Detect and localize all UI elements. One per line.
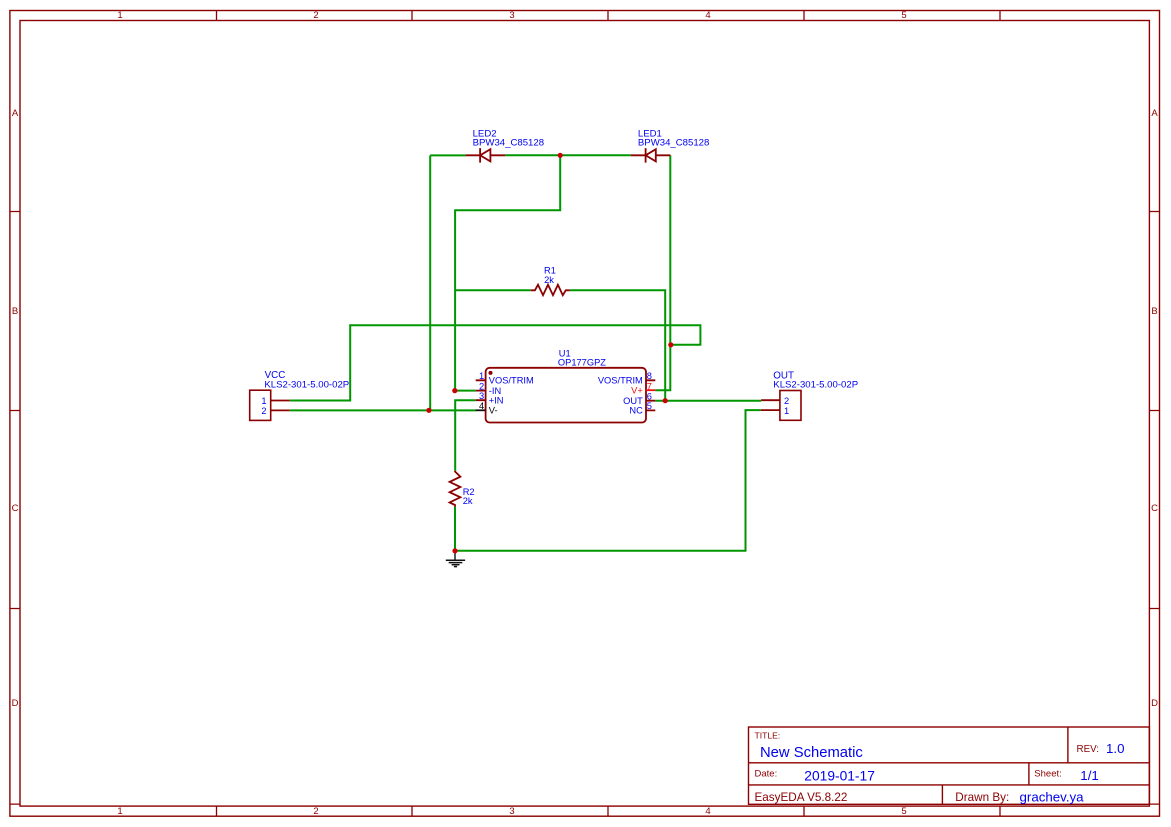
wire segment: VCC pin 2 to op-amp V- pin 4 <box>290 409 476 411</box>
svg-text:V-: V- <box>489 406 498 416</box>
svg-text:VOS/TRIM: VOS/TRIM <box>489 376 534 386</box>
svg-text:New Schematic: New Schematic <box>760 745 863 761</box>
svg-text:5: 5 <box>901 806 906 817</box>
svg-text:Drawn By:: Drawn By: <box>955 791 1009 804</box>
svg-text:3: 3 <box>479 391 484 401</box>
svg-text:KLS2-301-5.00-02P: KLS2-301-5.00-02P <box>773 380 858 391</box>
wire segment: R2 bottom to ground node <box>454 507 456 551</box>
svg-text:1: 1 <box>117 806 122 817</box>
junction node -IN <box>452 388 457 393</box>
svg-text:Sheet:: Sheet: <box>1034 769 1061 780</box>
svg-text:OP177GPZ: OP177GPZ <box>558 358 606 368</box>
wire segment: LED1 cathode down to op-amp V+ pin 7 <box>655 155 670 390</box>
svg-text:3: 3 <box>509 806 514 817</box>
U1 pin-1 marker dot <box>489 371 493 375</box>
svg-text:-IN: -IN <box>489 386 501 396</box>
OUT pin 2 stub <box>761 399 780 401</box>
op-amp U1 body <box>486 368 646 423</box>
svg-text:B: B <box>12 306 18 317</box>
wire segment: node B to LED1 anode <box>560 154 631 156</box>
svg-text:REV:: REV: <box>1077 744 1100 755</box>
wire segment: OUT connector pin 1 down to ground rail <box>455 410 761 551</box>
svg-text:2k: 2k <box>463 496 473 506</box>
svg-text:8: 8 <box>647 371 652 381</box>
svg-text:7: 7 <box>647 381 652 391</box>
svg-text:NC: NC <box>629 406 643 416</box>
VCC pin 2 stub <box>271 409 290 411</box>
svg-text:2: 2 <box>261 406 266 416</box>
U1 pin numbers left <box>479 371 484 411</box>
svg-text:4: 4 <box>705 10 710 21</box>
wire segment: VCC pin 1 up and across to V+ feed node <box>290 325 701 400</box>
svg-text:D: D <box>12 698 19 709</box>
wire segment: -IN node to pin 2 stub <box>455 390 476 392</box>
photodiode LED2 <box>466 148 506 163</box>
svg-text:VOS/TRIM: VOS/TRIM <box>598 376 643 386</box>
svg-text:1/1: 1/1 <box>1080 768 1099 783</box>
U1 right pin stubs 8,6,5 <box>646 380 656 410</box>
wire segment: node A to LED2 anode <box>430 154 465 156</box>
svg-text:D: D <box>1151 698 1158 709</box>
svg-text:2: 2 <box>479 381 484 391</box>
junction node V+ feed <box>668 342 673 347</box>
svg-text:grachev.ya: grachev.ya <box>1020 789 1085 804</box>
wire segment: node A down to V- rail <box>429 155 431 410</box>
connector OUT box <box>780 391 801 421</box>
svg-text:1: 1 <box>479 371 484 381</box>
svg-text:A: A <box>1151 108 1158 119</box>
svg-text:R1: R1 <box>544 265 556 275</box>
junction node ground <box>452 548 457 553</box>
svg-text:B: B <box>1151 306 1157 317</box>
svg-text:3: 3 <box>509 10 514 21</box>
svg-text:A: A <box>12 108 19 119</box>
svg-text:C: C <box>12 503 19 514</box>
svg-text:1.0: 1.0 <box>1106 741 1125 756</box>
U1 pin numbers right <box>647 371 652 411</box>
wire segment: LED2 cathode to node B <box>505 154 560 156</box>
svg-text:2: 2 <box>313 806 318 817</box>
svg-text:BPW34_C85128: BPW34_C85128 <box>638 138 709 149</box>
U1 pin names right <box>598 376 643 416</box>
svg-text:KLS2-301-5.00-02P: KLS2-301-5.00-02P <box>264 379 349 390</box>
svg-text:2: 2 <box>784 396 789 406</box>
svg-text:BPW34_C85128: BPW34_C85128 <box>473 138 544 149</box>
VCC pin 1 stub <box>271 400 290 402</box>
svg-text:1: 1 <box>117 10 122 21</box>
photodiode LED1 <box>631 148 671 163</box>
svg-text:2019-01-17: 2019-01-17 <box>804 769 875 784</box>
svg-text:5: 5 <box>901 10 906 21</box>
svg-text:TITLE:: TITLE: <box>755 731 781 741</box>
wire segment: -IN vertical to R1 left <box>455 289 531 291</box>
junction node V- rail <box>426 408 431 413</box>
svg-text:V+: V+ <box>631 385 643 395</box>
svg-text:2k: 2k <box>544 275 554 285</box>
title block frame <box>749 727 1150 805</box>
resistor R2 <box>450 471 461 507</box>
U1 pin 7 stub (bright red) <box>646 389 656 391</box>
U1 pin names left <box>489 376 534 416</box>
svg-text:OUT: OUT <box>623 396 643 406</box>
svg-text:6: 6 <box>647 391 652 401</box>
svg-text:+IN: +IN <box>489 396 504 406</box>
svg-text:2: 2 <box>313 10 318 21</box>
junction node top <box>558 153 563 158</box>
svg-text:4: 4 <box>705 806 710 817</box>
OUT pin 1 stub <box>761 409 780 411</box>
ground <box>446 551 465 567</box>
U1 left pin stubs 1-3 <box>476 380 486 400</box>
svg-text:EasyEDA V5.8.22: EasyEDA V5.8.22 <box>755 791 848 804</box>
svg-text:4: 4 <box>479 401 484 411</box>
junction node OUT <box>663 398 668 403</box>
U1 pin 4 stub (black) <box>476 409 486 411</box>
wire segment: node B down and over to -IN vertical <box>455 155 560 390</box>
svg-text:1: 1 <box>261 396 266 406</box>
wire segment: R1 right down to OUT node <box>570 290 665 400</box>
wire segment: pin 3 (+IN) over and down to R2 top <box>455 400 476 471</box>
svg-text:Date:: Date: <box>755 769 778 780</box>
resistor R1 <box>531 285 570 296</box>
svg-text:C: C <box>1151 503 1158 514</box>
svg-text:5: 5 <box>647 401 652 411</box>
svg-text:1: 1 <box>784 406 789 416</box>
connector VCC box <box>250 390 271 420</box>
wire segment: op-amp OUT pin 6 to OUT connector pin 2 <box>655 400 761 402</box>
